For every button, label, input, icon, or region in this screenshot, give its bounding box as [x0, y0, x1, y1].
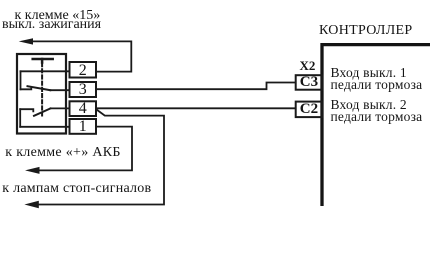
- label: выкл. зажигания: [2, 18, 101, 32]
- actuator dashed link: [41, 63, 43, 116]
- label: к клемме «+» АКБ: [5, 146, 120, 160]
- label: Вход выкл. 1 педали тормоза: [331, 67, 423, 91]
- switch contact upper: bottom fixed contact: [21, 88, 32, 90]
- pushbutton actuator T-bar: [33, 59, 53, 63]
- switch contact lower: top fixed contact: [20, 109, 33, 111]
- switch contact upper: top line to pin 2: [21, 70, 70, 72]
- switch contact lower: moving lever (open): [34, 108, 51, 115]
- switch contact upper: line to pin 3: [50, 89, 69, 91]
- label: к лампам стоп-сигналов: [2, 182, 151, 196]
- wire pin3 to C3: [96, 83, 295, 90]
- wire pin4 branch to stop lamps: [36, 110, 164, 205]
- label: C2 pin: [296, 102, 323, 117]
- arrowhead battery: [25, 167, 40, 174]
- pin number 3: [70, 82, 97, 98]
- connector pad C3 box: [296, 75, 323, 90]
- label: C3 pin: [296, 75, 323, 90]
- switch contact lower: left vertical: [19, 109, 21, 127]
- label: X2 connector name: [300, 59, 316, 72]
- arrowhead ignition 15: [19, 38, 33, 44]
- pin number 2: [70, 63, 97, 79]
- arrowhead stop lamps: [24, 201, 38, 208]
- switch contact upper: left vertical: [20, 71, 22, 89]
- pin number 4: [70, 101, 97, 117]
- controller boundary (top edge + left edge): [322, 43, 430, 206]
- switch contact lower: bottom line to pin 1: [20, 126, 69, 128]
- switch contact lower: line to pin 4: [51, 107, 70, 109]
- label: к клемме «15»: [15, 9, 101, 23]
- pin number 1: [70, 119, 97, 135]
- pin 1 box: [70, 119, 97, 134]
- connector / switch outer body S1: [17, 54, 66, 134]
- pin 3 box: [70, 82, 97, 97]
- switch contact upper: moving lever (closed): [28, 86, 51, 90]
- wire pin4 to C2: [96, 107, 295, 109]
- label: Вход выкл. 2 педали тормоза: [331, 99, 423, 123]
- wire pin2 to ignition terminal 15: [30, 41, 131, 71]
- pin 4 box: [70, 101, 97, 116]
- pin 2 box: [70, 62, 97, 78]
- connector pad C2 box: [296, 102, 323, 118]
- wire pin1 to battery +: [36, 127, 132, 171]
- label: КОНТРОЛЛЕР: [319, 24, 412, 38]
